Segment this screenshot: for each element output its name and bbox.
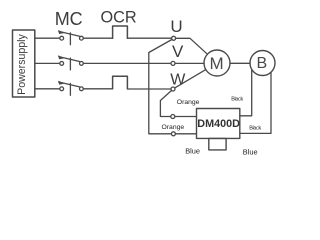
- terminal V: [171, 61, 175, 65]
- black wire upper to B: [240, 70, 252, 116]
- contactor MC pole 3: [59, 81, 84, 95]
- wire W to motor: [175, 70, 206, 88]
- wire L2 from supply to MC: [35, 62, 60, 64]
- wire MC to OCR (L1): [83, 37, 112, 39]
- wire OCR to U terminal: [127, 37, 171, 39]
- orange wire lower terminal: [171, 132, 175, 136]
- svg-text:U: U: [170, 17, 182, 36]
- svg-text:Blue: Blue: [185, 146, 200, 155]
- svg-text:W: W: [170, 72, 186, 89]
- rectifier terminal pedestal: [209, 138, 226, 150]
- orange wire from W down to rectifier: [160, 91, 171, 117]
- orange wire lower into box: [175, 133, 196, 135]
- terminal U: [172, 36, 176, 40]
- rectifier DM400D box: [197, 109, 240, 139]
- wire MC to OCR (L3): [83, 88, 112, 90]
- OCR heater element L3: [113, 76, 128, 89]
- svg-text:Orange: Orange: [177, 99, 200, 106]
- contactor MC pole 1: [59, 31, 84, 45]
- wire motor to brake B: [230, 62, 250, 64]
- svg-text:B: B: [256, 55, 267, 72]
- OCR heater element L1: [113, 26, 128, 38]
- wire L1 from supply to MC: [35, 37, 60, 39]
- svg-text:Powersupply: Powersupply: [16, 33, 28, 94]
- wire OCR to W terminal: [127, 88, 170, 90]
- svg-text:Black: Black: [231, 96, 243, 102]
- orange wire upper terminal: [171, 115, 175, 119]
- svg-text:DM400D: DM400D: [197, 118, 240, 130]
- power supply box: [13, 30, 35, 97]
- motor M circle: [204, 50, 230, 76]
- black wire lower to B: [240, 72, 271, 133]
- svg-text:Orange: Orange: [162, 124, 185, 131]
- wire U to motor: [176, 38, 208, 54]
- svg-text:OCR: OCR: [101, 8, 137, 26]
- wire MC to V terminal (L2): [83, 62, 171, 64]
- wire L3 from supply to MC: [35, 88, 60, 90]
- wire V to motor: [175, 62, 204, 64]
- svg-text:V: V: [172, 42, 184, 61]
- svg-text:MC: MC: [55, 9, 83, 29]
- svg-text:M: M: [210, 54, 224, 73]
- contactor MC pole 2: [59, 56, 84, 70]
- orange wire from U down to rectifier: [149, 40, 172, 134]
- svg-text:Blue: Blue: [243, 147, 258, 156]
- brake B circle: [250, 51, 275, 76]
- orange wire upper into box: [175, 116, 197, 118]
- terminal W: [171, 87, 175, 91]
- svg-text:Black: Black: [249, 125, 261, 131]
